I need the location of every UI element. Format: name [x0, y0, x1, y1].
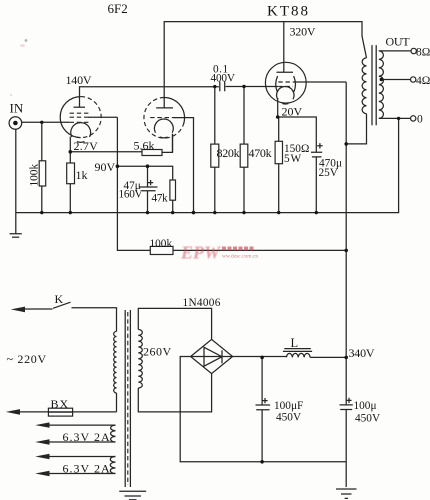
- svg-text:6.3V 2A: 6.3V 2A: [63, 462, 111, 476]
- svg-text:320V: 320V: [290, 25, 316, 39]
- svg-text:0: 0: [417, 114, 423, 126]
- svg-text:47k: 47k: [152, 193, 168, 205]
- svg-text:ww.dzsc.com.cn: ww.dzsc.com.cn: [222, 254, 258, 260]
- svg-text:1N4006: 1N4006: [183, 297, 221, 309]
- svg-text:340V: 340V: [349, 346, 375, 360]
- svg-text:OUT: OUT: [386, 35, 411, 49]
- svg-text:5W: 5W: [284, 153, 302, 165]
- svg-text:100k: 100k: [150, 238, 173, 250]
- svg-text:L: L: [291, 336, 299, 350]
- svg-text:EPW: EPW: [180, 243, 222, 263]
- svg-text:K: K: [55, 292, 64, 306]
- svg-text:260V: 260V: [143, 345, 172, 359]
- svg-text:820k: 820k: [217, 146, 240, 160]
- svg-text:~ 220V: ~ 220V: [7, 352, 47, 366]
- svg-text:4Ω: 4Ω: [416, 75, 430, 87]
- svg-text:450V: 450V: [355, 413, 381, 425]
- svg-text:100μ: 100μ: [354, 400, 377, 412]
- svg-text:8Ω: 8Ω: [416, 47, 430, 59]
- svg-text:470k: 470k: [249, 146, 272, 160]
- svg-text:BX: BX: [51, 397, 70, 411]
- svg-text:450V: 450V: [276, 412, 302, 424]
- svg-text:140V: 140V: [66, 73, 92, 87]
- svg-text:6F2: 6F2: [108, 1, 128, 16]
- svg-text:90V: 90V: [95, 160, 116, 174]
- svg-text:20V: 20V: [282, 105, 303, 119]
- svg-text:KT88: KT88: [267, 4, 310, 20]
- svg-text:400V: 400V: [211, 73, 236, 85]
- svg-text:25V: 25V: [319, 167, 339, 179]
- svg-text:IN: IN: [10, 101, 24, 116]
- svg-text:6.3V 2A: 6.3V 2A: [63, 430, 111, 444]
- svg-text:100k: 100k: [29, 164, 41, 187]
- svg-text:100μF: 100μF: [274, 400, 303, 412]
- svg-text:160V: 160V: [119, 189, 144, 201]
- svg-text:2.7V: 2.7V: [74, 139, 99, 153]
- svg-text:1k: 1k: [76, 168, 88, 182]
- svg-text:5.6k: 5.6k: [134, 139, 155, 153]
